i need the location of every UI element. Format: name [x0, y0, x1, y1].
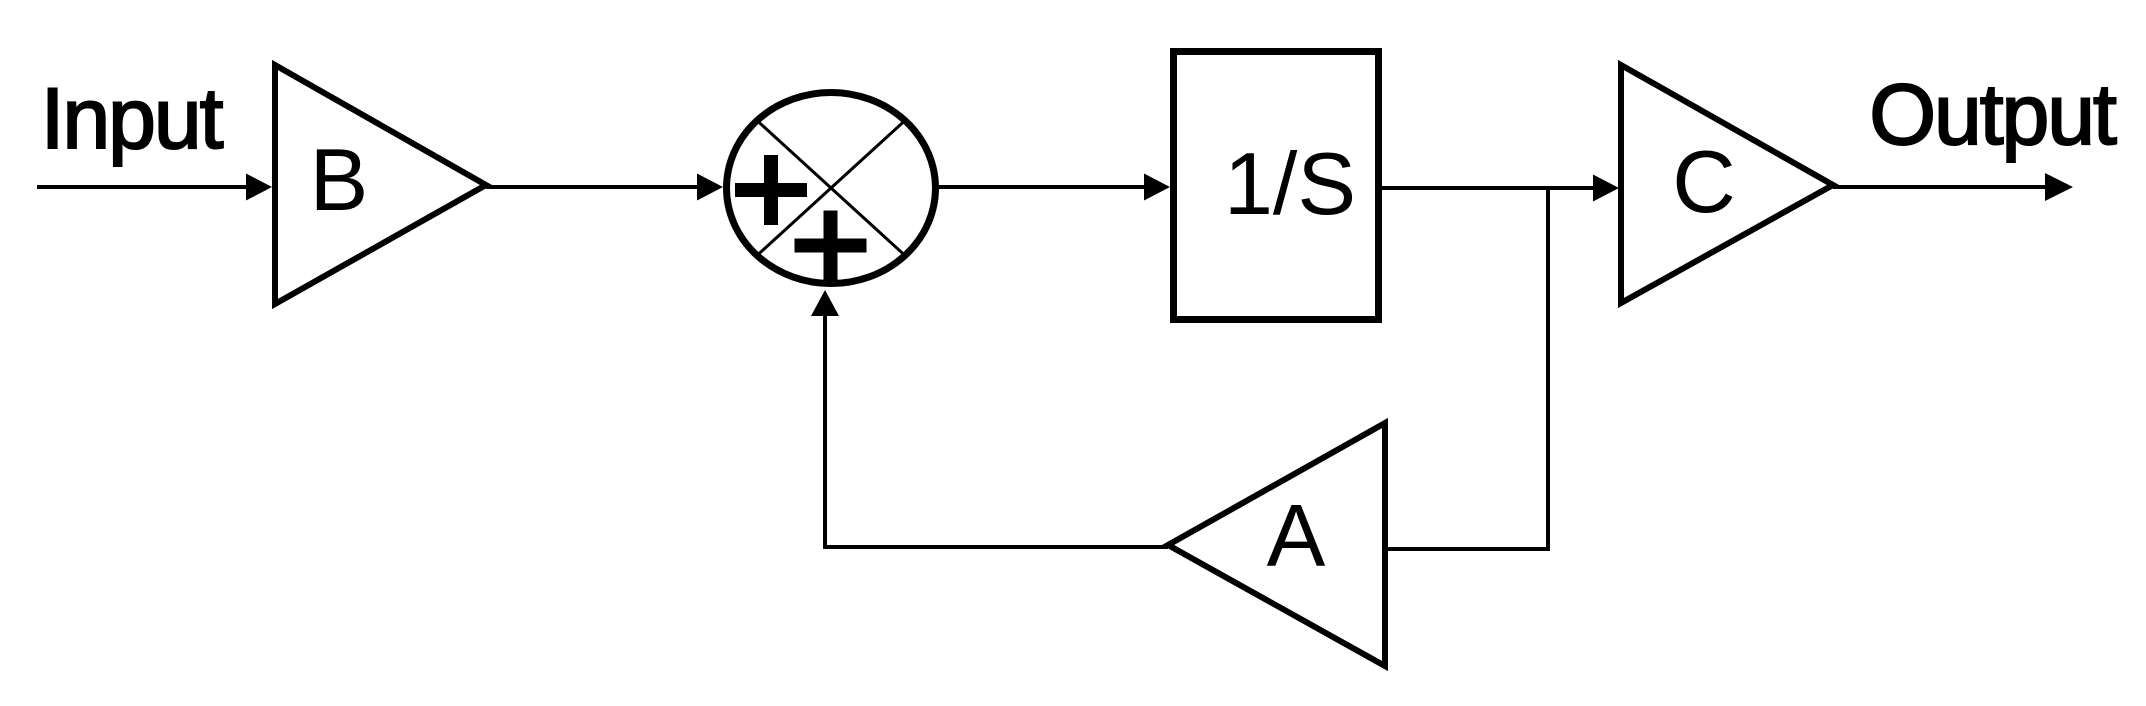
- plus sign left input: [735, 155, 807, 225]
- svg-text:Input: Input: [41, 71, 224, 167]
- wire integrator to amplifier C: [1382, 175, 1619, 202]
- node Input label: [41, 71, 224, 167]
- wire feedback riser into summing junction: [811, 290, 839, 549]
- amplifier C: [1621, 65, 1833, 303]
- amplifier A (feedback, points left): [1168, 423, 1385, 666]
- integrator block 1/S: [1174, 52, 1379, 320]
- amplifier B: [275, 65, 486, 304]
- wire amplifier B to summing junction: [486, 174, 723, 201]
- plus sign bottom input: [795, 211, 867, 281]
- wire summing junction to integrator: [939, 174, 1170, 201]
- wire feedback bottom right to amplifier A: [1385, 547, 1550, 551]
- wire input to amplifier B: [37, 174, 272, 201]
- wire amplifier C to output: [1833, 173, 2073, 201]
- node Output label: [1869, 67, 2117, 163]
- summing junction X diagonal NW-SE: [757, 121, 905, 256]
- svg-text:A: A: [1267, 486, 1326, 585]
- wire amplifier A to feedback riser: [825, 545, 1168, 549]
- svg-text:Output: Output: [1869, 67, 2117, 163]
- svg-text:1/S: 1/S: [1224, 134, 1356, 233]
- svg-text:B: B: [310, 130, 369, 229]
- summing junction circle: [727, 93, 936, 284]
- wire feedback drop from node after integrator: [1546, 188, 1550, 549]
- svg-text:C: C: [1672, 132, 1736, 231]
- summing junction X diagonal NE-SW: [757, 121, 905, 256]
